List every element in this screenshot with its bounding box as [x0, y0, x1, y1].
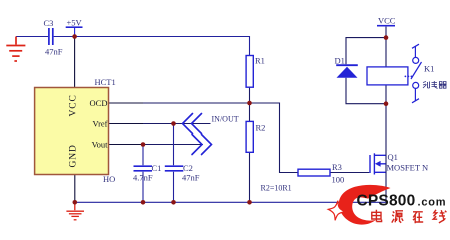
svg-text:R1: R1 [255, 56, 265, 66]
svg-text:Vref: Vref [92, 118, 107, 128]
svg-text:HCT1: HCT1 [95, 77, 116, 87]
svg-text:R2: R2 [256, 123, 266, 133]
svg-text:VCC: VCC [378, 16, 396, 26]
svg-text:CPS800: CPS800 [357, 193, 416, 210]
svg-text:D1: D1 [335, 56, 345, 66]
svg-text:R2=10R1: R2=10R1 [261, 184, 292, 193]
svg-text:GND: GND [69, 144, 79, 167]
svg-text:Vout: Vout [92, 139, 109, 149]
svg-text:47nF: 47nF [182, 173, 200, 183]
svg-text:Q1: Q1 [388, 152, 398, 162]
svg-text:4.7nF: 4.7nF [133, 173, 153, 183]
svg-text:100: 100 [332, 175, 345, 185]
svg-text:C2: C2 [183, 163, 193, 173]
svg-text:R3: R3 [332, 162, 342, 172]
svg-text:47nF: 47nF [45, 47, 63, 57]
svg-text:MOSFET N: MOSFET N [387, 163, 429, 173]
svg-text:.com: .com [418, 197, 447, 209]
svg-text:+5V: +5V [67, 18, 83, 28]
svg-text:IN/OUT: IN/OUT [212, 115, 239, 124]
svg-text:OCD: OCD [90, 98, 108, 108]
svg-text:VCC: VCC [69, 94, 79, 116]
svg-text:HO: HO [103, 174, 115, 184]
svg-text:C3: C3 [44, 18, 54, 28]
svg-text:K1: K1 [424, 64, 434, 74]
svg-text:C1: C1 [152, 163, 162, 173]
